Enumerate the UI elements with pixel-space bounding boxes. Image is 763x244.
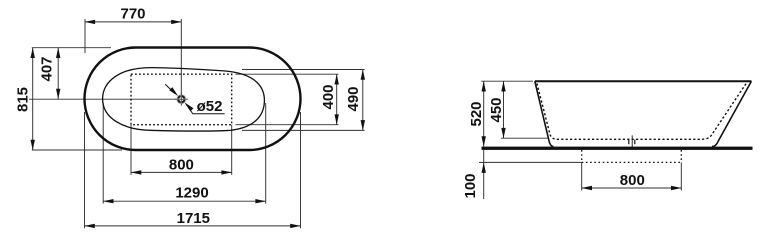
svg-text:800: 800 xyxy=(620,172,645,189)
svg-text:ø52: ø52 xyxy=(197,98,223,115)
svg-text:100: 100 xyxy=(462,173,479,198)
svg-text:770: 770 xyxy=(120,6,145,23)
svg-text:815: 815 xyxy=(15,87,32,112)
svg-text:400: 400 xyxy=(320,84,337,109)
svg-text:1715: 1715 xyxy=(177,210,210,227)
svg-text:407: 407 xyxy=(39,56,56,81)
svg-text:800: 800 xyxy=(169,157,194,174)
svg-text:1290: 1290 xyxy=(175,184,208,201)
svg-text:490: 490 xyxy=(345,86,362,111)
svg-text:520: 520 xyxy=(468,101,485,126)
svg-text:450: 450 xyxy=(488,97,505,122)
